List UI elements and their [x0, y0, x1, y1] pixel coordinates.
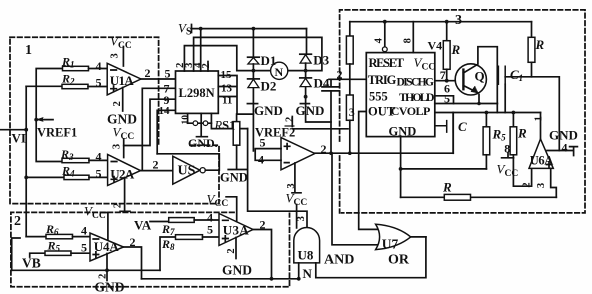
- svg-text:1: 1: [25, 43, 32, 58]
- node U4A gnd junction dot: [105, 268, 109, 272]
- resistor R5: [485, 113, 487, 127]
- svg-text:Q: Q: [475, 69, 485, 84]
- svg-text:L298N: L298N: [179, 86, 215, 100]
- svg-text:5: 5: [96, 167, 102, 181]
- wire Vcc rail box3: [350, 21, 532, 23]
- wire gnd mid branch: [292, 128, 348, 130]
- svg-text:2: 2: [321, 142, 327, 156]
- svg-text:VB: VB: [22, 256, 41, 271]
- wire U7 output: [411, 236, 426, 238]
- wire CVOLP loop riser: [452, 113, 454, 154]
- svg-text:4: 4: [258, 153, 264, 167]
- svg-text:3: 3: [455, 13, 462, 28]
- resistor R8: [176, 235, 203, 240]
- U8 bottom-right lead to U7 output loop: [316, 237, 426, 278]
- wire R2 to U1A pin5: [88, 86, 107, 88]
- op-amp U4A gnd stem: [106, 254, 108, 281]
- svg-text:U2A: U2A: [110, 167, 135, 182]
- svg-text:CVOLP: CVOLP: [391, 104, 431, 118]
- U6A output stem to rail: [540, 113, 542, 140]
- svg-text:VI: VI: [12, 131, 26, 146]
- op-amp U4A Vcc stem: [101, 213, 108, 241]
- svg-text:GND: GND: [549, 128, 578, 143]
- op-amp U3A: [219, 214, 253, 246]
- resistor RS1: [236, 114, 238, 122]
- resistor R divider top: [349, 22, 351, 36]
- svg-text:10: 10: [181, 115, 191, 125]
- svg-text:5: 5: [96, 76, 102, 90]
- svg-text:15: 15: [221, 69, 233, 81]
- svg-text:11: 11: [222, 95, 232, 107]
- wire VI to R6: [26, 236, 46, 238]
- resistor R3: [62, 158, 89, 162]
- op-amp U1A gnd pin2 stem: [122, 88, 124, 112]
- svg-text:13: 13: [221, 83, 233, 95]
- resistor R divider bottom: [346, 95, 353, 120]
- wire bottom R line: [401, 196, 557, 198]
- wire L298N 4th top stub: [207, 62, 209, 72]
- svg-text:2: 2: [130, 235, 136, 249]
- op-amp U1A Vcc pin3 stem: [122, 47, 124, 67]
- capacitor C 555: [435, 121, 453, 133]
- svg-text:U6A: U6A: [530, 154, 554, 168]
- transistor Q: [455, 64, 486, 95]
- wire R1 left lead + VREF1 vertical: [36, 69, 62, 162]
- node Vs tick and rail: [192, 25, 307, 33]
- VREF2 pin5 and pin4 leads strapped: [255, 149, 281, 161]
- svg-text:D4: D4: [314, 76, 330, 91]
- capacitor C1: [498, 66, 505, 84]
- U8 bottom-left input lead: [298, 263, 300, 279]
- svg-text:4: 4: [562, 141, 568, 155]
- gate U8 AND body: [294, 228, 320, 263]
- svg-text:N: N: [303, 266, 313, 281]
- wire output bus to U8: [142, 278, 299, 280]
- svg-text:V4: V4: [428, 39, 443, 53]
- L298N pin10 stub: [187, 113, 189, 123]
- node dot reset column: [383, 20, 387, 24]
- svg-text:2: 2: [145, 66, 151, 80]
- node dot rail R5: [485, 111, 489, 115]
- wire RS1 top tie to gnd column: [237, 113, 253, 115]
- svg-text:U1A: U1A: [110, 73, 135, 88]
- wire R8 drop: [160, 237, 176, 270]
- svg-text:VREF2: VREF2: [255, 126, 295, 140]
- node dot pullup column: [445, 20, 449, 24]
- wire R6 to U4A pin4: [73, 236, 91, 238]
- resistor R bottom: [444, 194, 470, 200]
- gnd bar below D2: [247, 103, 257, 105]
- wire D3/D4 column: [306, 63, 331, 122]
- node VREF1 arrow: [36, 119, 53, 121]
- svg-text:R: R: [451, 42, 461, 57]
- wire R1 to U1A pin4: [89, 68, 108, 70]
- op-amp U2A: [108, 155, 141, 186]
- node dot pullup to base: [445, 79, 449, 83]
- svg-text:U4A: U4A: [94, 239, 120, 254]
- wire net to U7 lower input: [332, 153, 381, 245]
- op-amp U2A gnd pin stem and bar: [120, 178, 130, 212]
- node dot below D4: [304, 95, 308, 99]
- svg-text:8: 8: [403, 38, 414, 43]
- U6A pin4 gnd line: [547, 147, 577, 156]
- svg-text:TRIG: TRIG: [368, 73, 397, 87]
- node dot emitter junction: [477, 102, 481, 106]
- resistor R top right: [531, 22, 533, 38]
- wire VI vertical bus: [25, 86, 27, 236]
- svg-text:2: 2: [201, 63, 212, 68]
- svg-text:OR: OR: [388, 253, 410, 268]
- svg-text:5: 5: [207, 223, 213, 237]
- wire C1 right lead to R column: [505, 76, 531, 78]
- 555 RESET pin4 column with bubble: [384, 22, 386, 47]
- op-amp U6A pointing up: [529, 139, 553, 168]
- inverter US: [173, 156, 200, 184]
- dashed box 1: [10, 37, 219, 203]
- svg-text:3: 3: [110, 53, 121, 58]
- wire VB bracket: [12, 238, 20, 270]
- wire gnd branch to R5: [401, 168, 487, 170]
- svg-text:3: 3: [112, 144, 123, 149]
- wire R down to gnd tick line: [532, 62, 560, 150]
- op-amp U2A Vcc pin3 stem: [123, 139, 125, 158]
- svg-text:RS1: RS1: [214, 119, 236, 133]
- svg-text:2: 2: [226, 248, 237, 253]
- svg-text:2: 2: [260, 218, 266, 232]
- dashed box 2: [11, 212, 290, 286]
- dashed box 3: [340, 10, 585, 213]
- op-amp U4A: [90, 233, 124, 261]
- wire U1A output to L298N pin5: [141, 78, 176, 80]
- resistor R1: [63, 66, 89, 70]
- svg-text:4: 4: [374, 37, 385, 43]
- svg-text:2: 2: [112, 101, 123, 106]
- svg-text:3: 3: [296, 216, 307, 221]
- wire sense net to U8 top: [248, 129, 307, 228]
- node dot rail R: [512, 111, 516, 115]
- wire R to U6A pin2: [513, 155, 531, 186]
- wire L298N pin3 OUT2 loop to D3/D4 node: [194, 37, 322, 71]
- wire L298N pin7 to U2A output: [142, 88, 175, 170]
- node dot D3-D4 motor tap: [304, 69, 308, 73]
- svg-text:VREF1: VREF1: [37, 126, 77, 140]
- wire 555 pin5 CVOLP merged line: [435, 103, 498, 105]
- op-amp U3A Vcc bracket: [226, 197, 237, 222]
- wire VA lead: [150, 221, 169, 223]
- resistor R lower: [512, 113, 514, 127]
- svg-text:VA: VA: [134, 218, 152, 233]
- wire 555 OUT column to U7 upper input: [359, 112, 380, 230]
- wire U3A output drop: [253, 230, 272, 279]
- svg-text:R: R: [517, 126, 527, 141]
- wire US output riser: [157, 154, 219, 170]
- comparator VREF2: [281, 138, 315, 170]
- svg-text:D2: D2: [261, 79, 277, 94]
- svg-text:U3A: U3A: [223, 223, 250, 238]
- op-amp U3A gnd stem: [235, 238, 237, 259]
- svg-text:2: 2: [521, 182, 532, 187]
- svg-text:GND: GND: [222, 263, 252, 278]
- gate U7 OR body: [376, 224, 411, 249]
- svg-text:2: 2: [153, 158, 159, 172]
- diode D3: [300, 53, 312, 55]
- svg-text:4: 4: [96, 150, 102, 164]
- svg-text:THOLD: THOLD: [399, 90, 435, 104]
- capacitor C trig: [322, 79, 339, 91]
- svg-text:GND: GND: [389, 125, 417, 139]
- node dot U8 tap: [297, 277, 301, 281]
- transistor Q collector: [463, 47, 497, 104]
- U8 Vcc stem: [292, 193, 301, 228]
- svg-text:GND: GND: [95, 280, 125, 294]
- svg-text:R: R: [442, 180, 452, 195]
- node dot gnd column: [399, 167, 403, 171]
- svg-text:DISCHG: DISCHG: [397, 77, 435, 89]
- RS1 gnd lead and bar: [228, 145, 246, 169]
- svg-text:4: 4: [81, 224, 87, 238]
- wire R8 to U3A pin5: [203, 236, 220, 238]
- node dot D1-D2 motor tap: [252, 69, 256, 73]
- wire R3 to U2A pin4: [89, 159, 108, 161]
- svg-text:5: 5: [444, 92, 450, 106]
- svg-text:R: R: [535, 37, 545, 52]
- resistor R6: [46, 234, 73, 238]
- node dot Vs pin4: [199, 27, 203, 31]
- wire 555 pin6 THOLD: [435, 96, 454, 104]
- diode D4: [300, 77, 312, 79]
- L298N right pin stubs: [218, 76, 237, 115]
- svg-text:3: 3: [536, 183, 547, 188]
- IC 555: [366, 53, 435, 137]
- node VI input lead: [0, 129, 26, 131]
- wire R7 to U3A pin4: [194, 219, 219, 221]
- diode D1: [248, 56, 260, 58]
- wire R2 left lead: [26, 85, 62, 87]
- U6A Vcc8 tick: [502, 153, 514, 158]
- svg-text:4: 4: [96, 59, 102, 73]
- resistor R7: [169, 218, 195, 223]
- svg-text:2: 2: [337, 68, 343, 82]
- wire VREF2 output line: [315, 152, 453, 154]
- gnd bar below D4: [300, 103, 309, 105]
- svg-text:1: 1: [533, 116, 544, 121]
- wire cap column to comparator output line: [330, 91, 332, 153]
- node dot Vs D1 column: [252, 27, 256, 31]
- jumper circles line: [188, 122, 212, 124]
- wire R5 left lead: [30, 253, 45, 257]
- VREF2 Vcc pin3 stem: [294, 163, 296, 192]
- wire bottom rail: [436, 112, 541, 114]
- resistor R4: [64, 175, 89, 179]
- svg-text:8: 8: [504, 142, 510, 156]
- svg-text:3: 3: [349, 105, 355, 119]
- wire R4 left lead: [26, 176, 64, 178]
- svg-text:555: 555: [369, 90, 388, 104]
- svg-text:U7: U7: [382, 237, 399, 252]
- wire divider mid: [349, 64, 351, 95]
- wire R4 to U2A pin5: [89, 176, 108, 178]
- svg-text:US: US: [178, 164, 196, 179]
- svg-text:GND.: GND.: [188, 136, 218, 150]
- wire U2A output to US input: [141, 170, 173, 172]
- wire pin5 line down to rail: [496, 104, 498, 113]
- svg-text:GND: GND: [220, 171, 248, 185]
- node VREF1 junction dot: [34, 118, 38, 122]
- diode D2: [248, 78, 260, 80]
- svg-text:C: C: [458, 119, 467, 134]
- svg-text:2: 2: [14, 214, 21, 229]
- 555 gnd pin1 column: [400, 137, 402, 198]
- node dot U3A tap: [270, 277, 274, 281]
- resistor R pullup V4: [446, 22, 448, 41]
- svg-text:2: 2: [113, 203, 124, 208]
- wire U4A output loop: [124, 247, 142, 279]
- resistor R5: [45, 251, 71, 255]
- L298N pin8 gnd stem: [197, 113, 208, 136]
- wire L298N pin2 OUT1 loop to D1/D2 node: [184, 46, 253, 71]
- wire VB line: [12, 269, 160, 271]
- wire L298N pin9 to Vcc branch: [124, 99, 176, 145]
- wire R5 to U4A pin5: [71, 252, 90, 254]
- U6A pin3 lead: [551, 168, 557, 197]
- wire cap C right column: [452, 113, 454, 154]
- wire D1/D2 column: [252, 29, 254, 151]
- node R4 junction dot: [24, 176, 28, 180]
- motor N: [253, 70, 305, 72]
- resistor R2: [62, 84, 88, 88]
- IC L298N: [176, 71, 219, 113]
- wire L298N pin4 Vs column: [200, 29, 202, 71]
- op-amp U1A: [107, 63, 141, 95]
- svg-text:14: 14: [159, 105, 171, 117]
- svg-text:7: 7: [440, 68, 446, 82]
- transistor Q emitter with arrow: [463, 86, 477, 93]
- 555 Vcc pin8 column: [412, 22, 414, 53]
- svg-text:5: 5: [81, 241, 87, 255]
- svg-text:AND: AND: [324, 253, 354, 268]
- svg-text:D3: D3: [313, 53, 329, 68]
- svg-text:RESET: RESET: [369, 56, 405, 70]
- node dot cap column: [329, 151, 333, 155]
- wire divider bottom lead: [349, 120, 351, 153]
- svg-text:3: 3: [286, 183, 297, 188]
- svg-text:N: N: [275, 65, 284, 79]
- svg-text:GND: GND: [296, 103, 325, 118]
- wire D3 column top: [306, 29, 308, 55]
- svg-text:2: 2: [98, 274, 109, 279]
- svg-text:2: 2: [285, 117, 296, 122]
- svg-text:U8: U8: [298, 248, 314, 263]
- wire L298N pin14 to US output line: [157, 110, 175, 154]
- wire L298N pin11 stub to U8 feed: [211, 113, 247, 128]
- node dot resistor column: [348, 151, 352, 155]
- wire TRIG line: [329, 78, 366, 80]
- VREF2 gnd pin2 stub above: [291, 117, 293, 127]
- svg-text:GND: GND: [254, 103, 283, 118]
- wire 555 pin7 DISCHG to base: [435, 80, 456, 82]
- svg-text:5: 5: [165, 67, 171, 81]
- wire C1 right plate to rail: [504, 84, 506, 112]
